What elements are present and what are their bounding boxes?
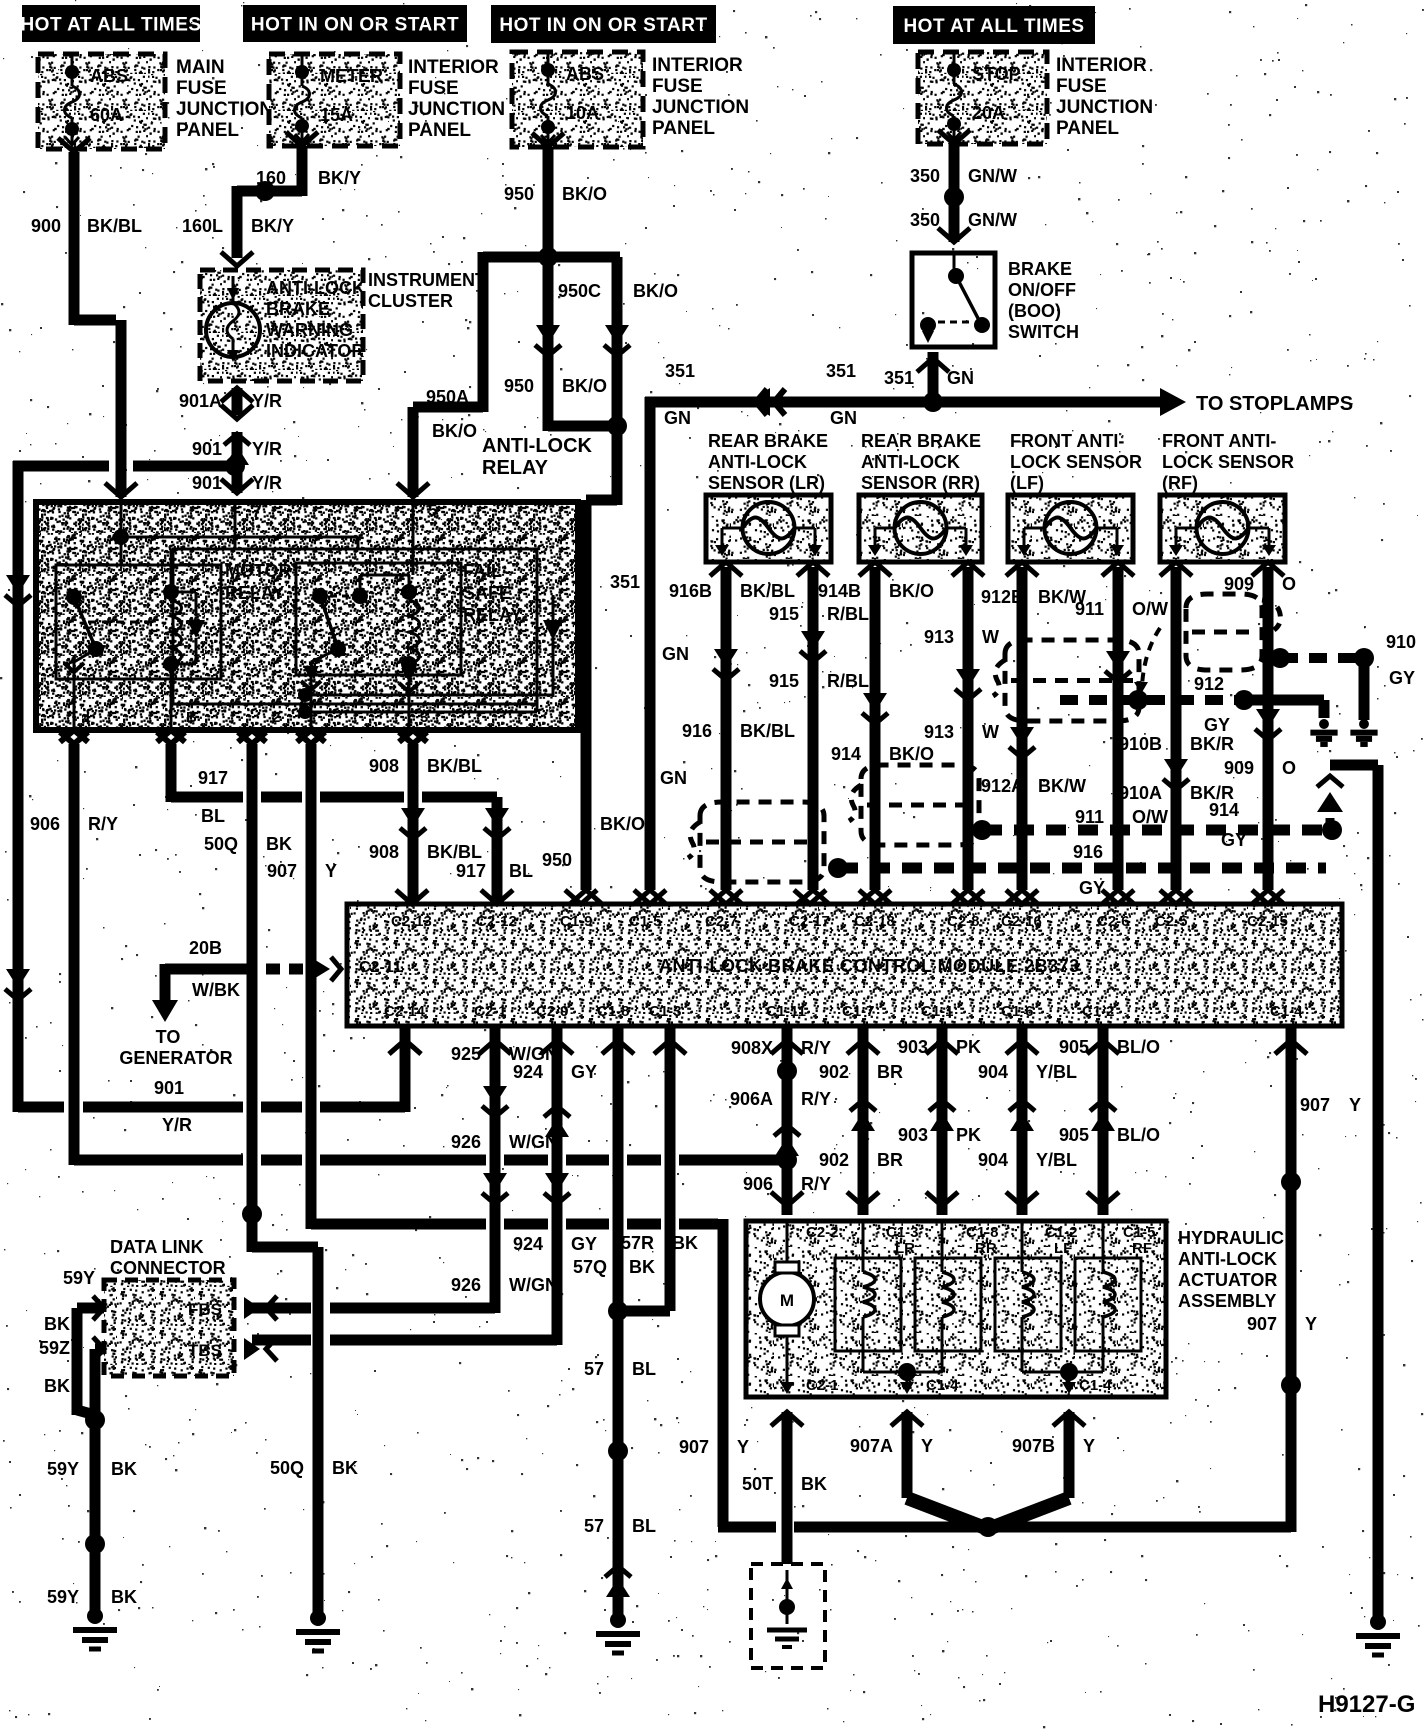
svg-text:906: 906 xyxy=(30,814,60,834)
svg-text:FUSE: FUSE xyxy=(1056,76,1107,97)
svg-text:O/W: O/W xyxy=(1132,599,1168,619)
svg-text:FUSE: FUSE xyxy=(652,76,703,97)
svg-text:GY: GY xyxy=(571,1062,597,1082)
svg-text:PANEL: PANEL xyxy=(1056,118,1119,139)
svg-text:BK/BL: BK/BL xyxy=(740,581,795,601)
svg-text:BK: BK xyxy=(629,1257,655,1277)
svg-text:TO: TO xyxy=(156,1027,181,1047)
svg-text:JUNCTION: JUNCTION xyxy=(176,99,273,120)
svg-text:C1-8: C1-8 xyxy=(966,1224,999,1241)
svg-text:HYDRAULIC: HYDRAULIC xyxy=(1178,1228,1284,1248)
svg-text:BK/R: BK/R xyxy=(1190,734,1234,754)
svg-text:59Y: 59Y xyxy=(63,1268,95,1288)
svg-text:HOT IN ON OR START: HOT IN ON OR START xyxy=(499,15,707,36)
svg-text:WARNING: WARNING xyxy=(266,320,353,340)
svg-text:950: 950 xyxy=(504,184,534,204)
svg-text:C1-11: C1-11 xyxy=(766,1003,806,1020)
svg-text:ANTI-LOCK BRAKE CONTROL MODULE: ANTI-LOCK BRAKE CONTROL MODULE 2B373 xyxy=(659,956,1080,976)
svg-text:910A: 910A xyxy=(1119,783,1162,803)
svg-text:SENSOR (LR): SENSOR (LR) xyxy=(708,473,825,493)
svg-text:912: 912 xyxy=(1194,674,1224,694)
svg-text:913: 913 xyxy=(924,627,954,647)
svg-text:924: 924 xyxy=(513,1234,543,1254)
svg-text:LOCK SENSOR: LOCK SENSOR xyxy=(1162,452,1294,472)
svg-text:BK/O: BK/O xyxy=(600,814,645,834)
svg-text:GN: GN xyxy=(662,644,689,664)
svg-text:GY: GY xyxy=(571,1234,597,1254)
svg-text:916: 916 xyxy=(682,721,712,741)
svg-text:Y: Y xyxy=(921,1436,933,1456)
svg-text:350: 350 xyxy=(910,210,940,230)
svg-text:160L: 160L xyxy=(182,216,223,236)
svg-text:C2-6: C2-6 xyxy=(1097,913,1130,930)
svg-text:BL: BL xyxy=(632,1516,656,1536)
svg-text:BK: BK xyxy=(44,1314,70,1334)
svg-text:916B: 916B xyxy=(669,581,712,601)
svg-text:BK/W: BK/W xyxy=(1038,776,1086,796)
svg-text:LF: LF xyxy=(1054,1240,1072,1257)
svg-text:351: 351 xyxy=(665,361,695,381)
svg-text:908: 908 xyxy=(369,756,399,776)
svg-text:BL: BL xyxy=(201,806,225,826)
svg-text:BK: BK xyxy=(111,1587,137,1607)
svg-text:JUNCTION: JUNCTION xyxy=(408,99,505,120)
svg-text:C2-12: C2-12 xyxy=(476,913,517,930)
svg-text:PK: PK xyxy=(956,1037,981,1057)
svg-text:917: 917 xyxy=(456,861,486,881)
svg-text:R/BL: R/BL xyxy=(827,671,869,691)
svg-text:RELAY: RELAY xyxy=(482,457,549,479)
svg-text:RR: RR xyxy=(975,1240,997,1257)
svg-text:BK/O: BK/O xyxy=(562,184,607,204)
svg-text:GENERATOR: GENERATOR xyxy=(119,1048,232,1068)
svg-text:BK: BK xyxy=(266,834,292,854)
svg-text:351: 351 xyxy=(826,361,856,381)
svg-text:MAIN: MAIN xyxy=(176,57,225,78)
svg-text:INTERIOR: INTERIOR xyxy=(652,55,743,76)
svg-text:JUNCTION: JUNCTION xyxy=(652,97,749,118)
svg-text:57R: 57R xyxy=(621,1233,654,1253)
svg-text:ANTI-LOCK: ANTI-LOCK xyxy=(861,452,960,472)
svg-text:915: 915 xyxy=(769,604,799,624)
svg-text:5: 5 xyxy=(428,501,437,520)
svg-text:ANTI-LOCK: ANTI-LOCK xyxy=(1178,1249,1277,1269)
svg-text:PANEL: PANEL xyxy=(408,120,471,141)
svg-text:C2-7: C2-7 xyxy=(705,913,738,930)
svg-text:903: 903 xyxy=(898,1037,928,1057)
svg-text:C1-3: C1-3 xyxy=(649,1003,682,1020)
svg-text:908: 908 xyxy=(369,842,399,862)
svg-text:ABS: ABS xyxy=(90,66,128,86)
svg-text:ABS: ABS xyxy=(566,64,604,84)
svg-text:57Q: 57Q xyxy=(573,1257,607,1277)
svg-text:BK/BL: BK/BL xyxy=(740,721,795,741)
svg-text:ASSEMBLY: ASSEMBLY xyxy=(1178,1291,1276,1311)
svg-text:BK/O: BK/O xyxy=(633,281,678,301)
svg-text:907: 907 xyxy=(1300,1095,1330,1115)
svg-text:BR: BR xyxy=(877,1062,903,1082)
svg-text:INTERIOR: INTERIOR xyxy=(1056,55,1147,76)
svg-text:ANTI-LOCK: ANTI-LOCK xyxy=(482,435,593,457)
svg-text:BL/O: BL/O xyxy=(1117,1125,1160,1145)
svg-text:INTERIOR: INTERIOR xyxy=(408,57,499,78)
svg-text:INDICATOR: INDICATOR xyxy=(266,341,364,361)
svg-text:900: 900 xyxy=(31,216,61,236)
svg-text:BK/BL: BK/BL xyxy=(427,842,482,862)
svg-text:C1-8: C1-8 xyxy=(597,1003,630,1020)
svg-text:C2-1: C2-1 xyxy=(474,1003,507,1020)
svg-text:H9127-G: H9127-G xyxy=(1318,1691,1415,1718)
svg-text:FBS: FBS xyxy=(188,1300,222,1319)
svg-text:925: 925 xyxy=(451,1044,481,1064)
svg-text:R/Y: R/Y xyxy=(801,1174,831,1194)
svg-text:950: 950 xyxy=(542,850,572,870)
svg-text:Y: Y xyxy=(1083,1436,1095,1456)
svg-text:351: 351 xyxy=(884,368,914,388)
svg-text:C1-9: C1-9 xyxy=(560,913,593,930)
svg-text:C1-6: C1-6 xyxy=(1001,1003,1034,1020)
svg-text:BRAKE: BRAKE xyxy=(1008,259,1072,279)
svg-text:R/Y: R/Y xyxy=(801,1089,831,1109)
svg-text:C1-4: C1-4 xyxy=(1270,1003,1303,1020)
svg-text:C1-4: C1-4 xyxy=(1079,1377,1112,1394)
svg-text:STOP: STOP xyxy=(972,64,1021,84)
svg-text:917: 917 xyxy=(198,768,228,788)
svg-text:(LF): (LF) xyxy=(1010,473,1044,493)
svg-text:C1-5: C1-5 xyxy=(1123,1224,1156,1241)
svg-text:Y/R: Y/R xyxy=(162,1115,192,1135)
svg-text:350: 350 xyxy=(910,166,940,186)
svg-text:REAR BRAKE: REAR BRAKE xyxy=(861,431,981,451)
svg-text:C1-7: C1-7 xyxy=(842,1003,875,1020)
svg-text:FRONT ANTI-: FRONT ANTI- xyxy=(1162,431,1276,451)
svg-text:C1-2: C1-2 xyxy=(1082,1003,1115,1020)
svg-text:BRAKE: BRAKE xyxy=(266,299,330,319)
svg-text:905: 905 xyxy=(1059,1037,1089,1057)
svg-text:914B: 914B xyxy=(818,581,861,601)
svg-text:BK/O: BK/O xyxy=(889,744,934,764)
svg-text:907A: 907A xyxy=(850,1436,893,1456)
svg-text:C1-3: C1-3 xyxy=(886,1224,919,1241)
svg-text:10A: 10A xyxy=(566,103,599,123)
svg-text:906A: 906A xyxy=(730,1089,773,1109)
svg-text:916: 916 xyxy=(1073,842,1103,862)
svg-text:909: 909 xyxy=(1224,574,1254,594)
svg-text:BL/O: BL/O xyxy=(1117,1037,1160,1057)
svg-text:JUNCTION: JUNCTION xyxy=(1056,97,1153,118)
svg-text:907: 907 xyxy=(1247,1314,1277,1334)
svg-text:912B: 912B xyxy=(981,587,1024,607)
svg-text:901: 901 xyxy=(154,1078,184,1098)
svg-text:907: 907 xyxy=(267,861,297,881)
svg-text:C1-4: C1-4 xyxy=(926,1377,959,1394)
svg-text:950C: 950C xyxy=(558,281,601,301)
svg-text:BR: BR xyxy=(877,1150,903,1170)
svg-text:914: 914 xyxy=(1209,800,1239,820)
svg-text:909: 909 xyxy=(1224,758,1254,778)
svg-text:W/BK: W/BK xyxy=(192,980,240,1000)
svg-text:ACTUATOR: ACTUATOR xyxy=(1178,1270,1277,1290)
svg-text:(RF): (RF) xyxy=(1162,473,1198,493)
svg-text:W/GN: W/GN xyxy=(509,1275,558,1295)
svg-text:Y: Y xyxy=(1349,1095,1361,1115)
svg-text:906: 906 xyxy=(743,1174,773,1194)
svg-text:901A: 901A xyxy=(179,391,222,411)
svg-text:160: 160 xyxy=(256,168,286,188)
svg-text:C2-9: C2-9 xyxy=(536,1003,569,1020)
svg-text:Y/R: Y/R xyxy=(252,473,282,493)
svg-text:C2-1: C2-1 xyxy=(806,1377,839,1394)
svg-text:50Q: 50Q xyxy=(204,834,238,854)
svg-text:RF: RF xyxy=(1132,1240,1152,1257)
svg-text:HOT IN ON OR START: HOT IN ON OR START xyxy=(251,15,459,36)
svg-text:2: 2 xyxy=(272,709,280,726)
svg-text:915: 915 xyxy=(769,671,799,691)
svg-text:SWITCH: SWITCH xyxy=(1008,322,1079,342)
svg-text:FUSE: FUSE xyxy=(408,78,459,99)
svg-text:R/Y: R/Y xyxy=(801,1038,831,1058)
svg-text:60A: 60A xyxy=(90,105,123,125)
svg-text:SAFE: SAFE xyxy=(463,583,511,603)
svg-text:GN: GN xyxy=(947,368,974,388)
svg-text:907: 907 xyxy=(679,1437,709,1457)
svg-text:REAR BRAKE: REAR BRAKE xyxy=(708,431,828,451)
svg-text:BK/BL: BK/BL xyxy=(87,216,142,236)
svg-text:910B: 910B xyxy=(1119,734,1162,754)
svg-text:4: 4 xyxy=(82,711,91,728)
svg-text:O: O xyxy=(1282,574,1296,594)
svg-text:W: W xyxy=(982,627,999,647)
svg-text:CONNECTOR: CONNECTOR xyxy=(110,1258,226,1278)
svg-text:903: 903 xyxy=(898,1125,928,1145)
svg-text:BK: BK xyxy=(332,1458,358,1478)
svg-text:DATA LINK: DATA LINK xyxy=(110,1237,204,1257)
svg-text:GN: GN xyxy=(664,408,691,428)
svg-text:950A: 950A xyxy=(426,387,469,407)
svg-text:910: 910 xyxy=(1386,632,1416,652)
svg-text:911: 911 xyxy=(1075,599,1104,619)
svg-text:C2-18: C2-18 xyxy=(854,913,895,930)
svg-text:C2-2: C2-2 xyxy=(806,1224,839,1241)
svg-text:BL: BL xyxy=(632,1359,656,1379)
svg-text:C2-11: C2-11 xyxy=(359,959,402,976)
svg-text:20B: 20B xyxy=(189,938,222,958)
svg-text:C2-15: C2-15 xyxy=(1247,913,1288,930)
svg-text:50T: 50T xyxy=(742,1474,773,1494)
svg-text:59Z: 59Z xyxy=(39,1338,70,1358)
svg-text:SENSOR (RR): SENSOR (RR) xyxy=(861,473,980,493)
svg-text:BK: BK xyxy=(111,1459,137,1479)
svg-text:FUSE: FUSE xyxy=(176,78,227,99)
svg-text:Y/BL: Y/BL xyxy=(1036,1062,1077,1082)
svg-text:924: 924 xyxy=(513,1062,543,1082)
svg-text:907B: 907B xyxy=(1012,1436,1055,1456)
svg-text:BK/Y: BK/Y xyxy=(318,168,361,188)
svg-text:926: 926 xyxy=(451,1132,481,1152)
svg-text:HOT AT ALL TIMES: HOT AT ALL TIMES xyxy=(903,16,1084,37)
svg-text:R/BL: R/BL xyxy=(827,604,869,624)
svg-text:TBS: TBS xyxy=(188,1341,222,1360)
svg-text:904: 904 xyxy=(978,1062,1008,1082)
svg-text:59Y: 59Y xyxy=(47,1587,79,1607)
svg-text:GN: GN xyxy=(660,768,687,788)
svg-text:C1-1: C1-1 xyxy=(921,1003,954,1020)
svg-text:C2-17: C2-17 xyxy=(789,913,830,930)
svg-text:HOT AT ALL TIMES: HOT AT ALL TIMES xyxy=(20,15,201,36)
svg-text:PK: PK xyxy=(956,1125,981,1145)
svg-text:57: 57 xyxy=(584,1359,604,1379)
svg-text:O: O xyxy=(1282,758,1296,778)
svg-text:Y/R: Y/R xyxy=(252,439,282,459)
svg-text:(BOO): (BOO) xyxy=(1008,301,1061,321)
svg-text:BK/O: BK/O xyxy=(889,581,934,601)
svg-text:BK: BK xyxy=(801,1474,827,1494)
svg-text:MOTOR: MOTOR xyxy=(225,561,292,581)
svg-text:911: 911 xyxy=(1075,807,1104,827)
svg-text:914: 914 xyxy=(831,744,861,764)
svg-text:RELAY: RELAY xyxy=(463,605,522,625)
svg-text:C2-14: C2-14 xyxy=(384,1003,426,1020)
svg-text:CLUSTER: CLUSTER xyxy=(368,291,453,311)
svg-text:C1-2: C1-2 xyxy=(1045,1224,1078,1241)
svg-text:LOCK SENSOR: LOCK SENSOR xyxy=(1010,452,1142,472)
svg-text:59Y: 59Y xyxy=(47,1459,79,1479)
svg-text:Y: Y xyxy=(1305,1314,1317,1334)
svg-text:FRONT ANTI-: FRONT ANTI- xyxy=(1010,431,1124,451)
svg-text:908X: 908X xyxy=(731,1038,773,1058)
svg-text:Y: Y xyxy=(737,1437,749,1457)
svg-text:913: 913 xyxy=(924,722,954,742)
svg-text:M: M xyxy=(780,1291,794,1310)
svg-text:912A: 912A xyxy=(981,776,1024,796)
svg-text:20A: 20A xyxy=(972,103,1005,123)
svg-text:GY: GY xyxy=(1204,715,1230,735)
svg-text:ON/OFF: ON/OFF xyxy=(1008,280,1076,300)
svg-text:BK/BL: BK/BL xyxy=(427,756,482,776)
svg-text:R/Y: R/Y xyxy=(88,814,118,834)
svg-text:C1-5: C1-5 xyxy=(629,913,662,930)
svg-text:RELAY: RELAY xyxy=(225,583,284,603)
svg-text:57: 57 xyxy=(584,1516,604,1536)
svg-text:Y: Y xyxy=(325,861,337,881)
svg-text:Y/R: Y/R xyxy=(252,391,282,411)
svg-text:GY: GY xyxy=(1389,668,1415,688)
svg-text:BK/O: BK/O xyxy=(432,421,477,441)
svg-text:W/GN: W/GN xyxy=(509,1044,558,1064)
svg-text:BK/Y: BK/Y xyxy=(251,216,294,236)
svg-text:PANEL: PANEL xyxy=(652,118,715,139)
svg-text:B: B xyxy=(186,709,197,726)
svg-text:351: 351 xyxy=(610,572,640,592)
svg-text:BK/O: BK/O xyxy=(562,376,607,396)
svg-text:GY: GY xyxy=(1221,830,1247,850)
svg-text:GN/W: GN/W xyxy=(968,210,1017,230)
svg-text:BK: BK xyxy=(672,1233,698,1253)
svg-text:7: 7 xyxy=(252,502,261,521)
svg-text:METER: METER xyxy=(320,66,383,86)
svg-text:C2-13: C2-13 xyxy=(391,913,432,930)
svg-text:ANTI-LOCK: ANTI-LOCK xyxy=(266,278,365,298)
svg-text:904: 904 xyxy=(978,1150,1008,1170)
svg-text:C2-5: C2-5 xyxy=(1155,913,1188,930)
svg-text:TO STOPLAMPS: TO STOPLAMPS xyxy=(1196,393,1353,415)
svg-text:GN/W: GN/W xyxy=(968,166,1017,186)
svg-text:901: 901 xyxy=(192,439,222,459)
svg-text:BL: BL xyxy=(509,861,533,881)
svg-text:W: W xyxy=(982,722,999,742)
svg-text:Y/BL: Y/BL xyxy=(1036,1150,1077,1170)
svg-text:FAIL-: FAIL- xyxy=(463,561,508,581)
svg-text:C2-8: C2-8 xyxy=(947,913,980,930)
svg-text:902: 902 xyxy=(819,1062,849,1082)
svg-text:INSTRUMENT: INSTRUMENT xyxy=(368,270,486,290)
svg-text:BK: BK xyxy=(44,1376,70,1396)
svg-text:926: 926 xyxy=(451,1275,481,1295)
svg-text:50Q: 50Q xyxy=(270,1458,304,1478)
svg-text:ANTI-LOCK: ANTI-LOCK xyxy=(708,452,807,472)
svg-text:O/W: O/W xyxy=(1132,807,1168,827)
svg-text:GN: GN xyxy=(830,408,857,428)
svg-text:902: 902 xyxy=(819,1150,849,1170)
svg-text:905: 905 xyxy=(1059,1125,1089,1145)
svg-text:C2-16: C2-16 xyxy=(1001,913,1042,930)
svg-text:901: 901 xyxy=(192,473,222,493)
svg-text:GY: GY xyxy=(1079,878,1105,898)
